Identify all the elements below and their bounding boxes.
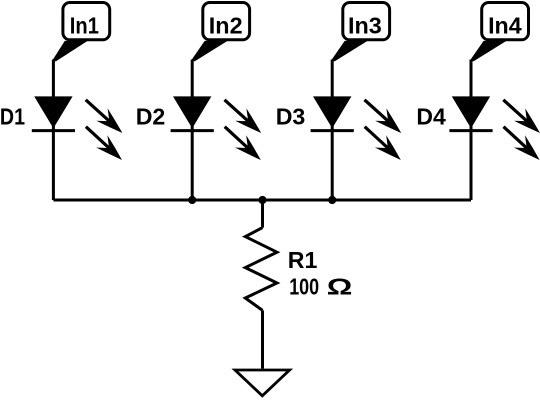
node In3 callout tail bbox=[331, 41, 368, 61]
junction dot on bus at x=262.5 bbox=[258, 196, 266, 204]
svg-text:R1: R1 bbox=[288, 247, 318, 273]
LED D3 light emission arrow 1 bbox=[365, 100, 391, 123]
wire: bus down to resistor R1 bbox=[261, 200, 264, 228]
svg-text:100: 100 bbox=[289, 274, 319, 300]
svg-text:In2: In2 bbox=[209, 12, 243, 38]
node In2 callout tail bbox=[191, 41, 228, 61]
LED D4 triangle (anode) bbox=[452, 96, 490, 128]
wire: input In3 down through LED D3 to bus bbox=[331, 60, 334, 201]
junction dot on bus at x=332.2 bbox=[328, 196, 336, 204]
svg-text:D3: D3 bbox=[276, 103, 306, 129]
wire: common cathode bus bbox=[53, 199, 471, 202]
junction dot on bus at x=192.2 bbox=[188, 196, 196, 204]
svg-text:In4: In4 bbox=[488, 12, 522, 38]
LED D3 light emission arrow 2 bbox=[365, 127, 390, 150]
svg-text:D4: D4 bbox=[416, 103, 445, 129]
svg-text:Ω: Ω bbox=[327, 273, 353, 299]
LED D3 triangle (anode) bbox=[313, 96, 351, 128]
LED D4 cathode bar bbox=[449, 129, 492, 132]
wire: input In1 down through LED D1 to bus bbox=[52, 60, 55, 201]
node In4 callout box bbox=[482, 3, 529, 40]
LED D4 light emission arrow 2 bbox=[504, 127, 529, 150]
wire: resistor R1 down to ground bbox=[261, 310, 264, 368]
svg-text:D1: D1 bbox=[0, 103, 25, 130]
node In2 callout box bbox=[203, 3, 250, 40]
LED D1 triangle (anode) bbox=[34, 96, 72, 128]
LED D2 triangle (anode) bbox=[173, 96, 211, 128]
LED D2 light emission arrow 1 bbox=[225, 100, 251, 123]
LED D4 light emission arrow 1 bbox=[503, 100, 529, 123]
svg-text:D2: D2 bbox=[136, 103, 166, 129]
node In3 callout box bbox=[343, 3, 390, 40]
node In1 callout tail bbox=[52, 41, 88, 61]
wire: input In4 down through LED D4 to bus bbox=[470, 60, 473, 201]
node In4 callout tail bbox=[469, 41, 506, 61]
LED D1 light emission arrow 1 bbox=[86, 100, 112, 123]
wire: input In2 down through LED D2 to bus bbox=[191, 60, 194, 201]
resistor R1 zigzag body bbox=[245, 228, 277, 311]
svg-text:In3: In3 bbox=[348, 12, 382, 38]
LED D2 cathode bar bbox=[171, 129, 214, 132]
svg-text:In1: In1 bbox=[70, 12, 99, 39]
LED D1 light emission arrow 2 bbox=[86, 127, 111, 150]
LED D3 cathode bar bbox=[311, 129, 354, 132]
node In1 callout box bbox=[63, 3, 110, 40]
ground symbol (open triangle) bbox=[235, 370, 290, 396]
LED D1 cathode bar bbox=[32, 129, 75, 132]
LED D2 light emission arrow 2 bbox=[225, 127, 250, 150]
